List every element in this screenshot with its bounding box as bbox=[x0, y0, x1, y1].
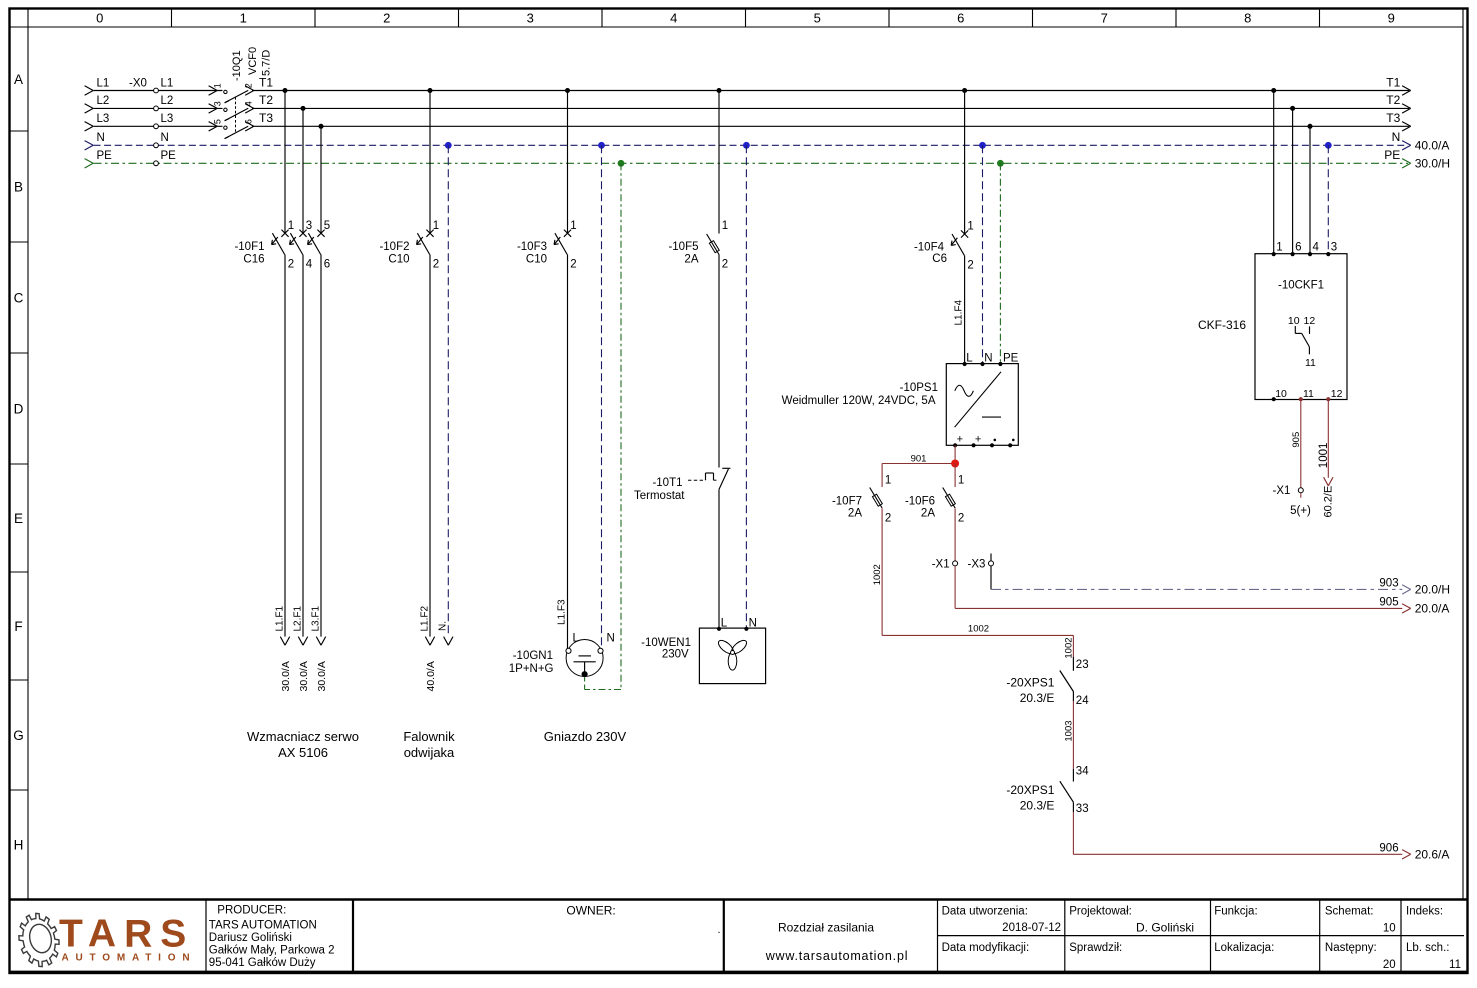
svg-text:0: 0 bbox=[96, 11, 103, 26]
input arrow L3 bbox=[85, 122, 94, 131]
text PRODUCER bbox=[217, 905, 286, 917]
svg-text:905: 905 bbox=[1379, 596, 1398, 608]
input arrow L1 bbox=[85, 86, 94, 95]
svg-text:4: 4 bbox=[1313, 241, 1320, 253]
node T1-F4 bbox=[962, 88, 967, 93]
fan -10WEN1 230V bbox=[641, 617, 765, 683]
svg-text:1: 1 bbox=[433, 220, 439, 232]
svg-text:4: 4 bbox=[670, 11, 677, 26]
label 905 bbox=[1379, 596, 1398, 608]
wire L1.F4 bbox=[964, 255, 966, 363]
svg-text:Lokalizacja:: Lokalizacja: bbox=[1214, 942, 1274, 954]
svg-text:T2: T2 bbox=[259, 93, 273, 107]
wire 906 down bbox=[1072, 812, 1074, 854]
svg-text:10: 10 bbox=[1275, 388, 1287, 400]
svg-text:C6: C6 bbox=[932, 253, 947, 265]
svg-text:C: C bbox=[14, 290, 24, 305]
svg-text:4: 4 bbox=[306, 259, 313, 271]
svg-text:T1: T1 bbox=[1386, 75, 1400, 89]
svg-text:-20XPS1: -20XPS1 bbox=[1006, 783, 1054, 797]
svg-text:1003: 1003 bbox=[1064, 720, 1075, 741]
svg-text:230V: 230V bbox=[662, 649, 689, 661]
label 1003 vert bbox=[1064, 720, 1075, 741]
svg-text:-10GN1: -10GN1 bbox=[513, 650, 553, 662]
svg-text:5.7/D: 5.7/D bbox=[261, 50, 273, 76]
svg-text:T3: T3 bbox=[259, 111, 273, 125]
wire PSU+ down bbox=[954, 445, 956, 463]
svg-text:11: 11 bbox=[1449, 959, 1461, 971]
node T3-F1 bbox=[319, 124, 324, 129]
svg-text:1002: 1002 bbox=[872, 564, 883, 585]
row ruler A-H bbox=[10, 72, 29, 853]
xref 20.6/A bbox=[1415, 848, 1450, 862]
label 1002 horiz bbox=[968, 624, 989, 635]
main switch -10Q1 VCF0 5.7/D bbox=[209, 47, 273, 139]
svg-text:-10WEN1: -10WEN1 bbox=[641, 637, 691, 649]
text Gniazdo 230V bbox=[544, 729, 627, 744]
text Wzmacniacz serwo bbox=[247, 729, 359, 744]
svg-text:C16: C16 bbox=[243, 254, 264, 266]
svg-text:Schemat:: Schemat: bbox=[1325, 906, 1374, 918]
wire 901 to F6 bbox=[954, 464, 956, 488]
label 1002 vert 2 bbox=[1064, 637, 1075, 658]
node PE-PS1 bbox=[997, 160, 1004, 167]
text 20 bbox=[1383, 959, 1396, 971]
svg-text:L: L bbox=[966, 352, 973, 364]
svg-text:1: 1 bbox=[288, 220, 294, 232]
svg-text:7: 7 bbox=[1101, 11, 1108, 26]
wire T1 bus bbox=[252, 90, 1409, 92]
wire 1002 horizontal bbox=[882, 634, 1073, 636]
text OWNER bbox=[566, 904, 615, 918]
svg-text:20.0/H: 20.0/H bbox=[1415, 583, 1450, 597]
wire N bus bbox=[94, 144, 1409, 146]
xref 40.0/A bbox=[1415, 139, 1450, 153]
svg-text:F: F bbox=[14, 619, 22, 634]
label N right bbox=[1392, 130, 1401, 144]
svg-text:TARS: TARS bbox=[59, 913, 194, 956]
svg-text:E: E bbox=[14, 511, 23, 526]
svg-text:2: 2 bbox=[244, 83, 254, 88]
svg-text:10: 10 bbox=[1383, 923, 1396, 935]
svg-text:906: 906 bbox=[1379, 842, 1398, 854]
svg-text:L1: L1 bbox=[97, 77, 110, 89]
svg-text:1: 1 bbox=[958, 475, 964, 487]
label T2 bbox=[259, 93, 273, 107]
wire X1 down bbox=[954, 566, 956, 609]
wire L3 input bbox=[94, 125, 223, 127]
label 906 bbox=[1379, 842, 1398, 854]
svg-text:H: H bbox=[14, 837, 24, 852]
fuse -10F6 2A bbox=[905, 475, 964, 525]
svg-text:Funkcja:: Funkcja: bbox=[1214, 906, 1257, 918]
wire L3.F1 bbox=[320, 255, 322, 637]
svg-text:L3: L3 bbox=[97, 113, 110, 125]
svg-text:odwijaka: odwijaka bbox=[404, 745, 455, 760]
svg-text:PRODUCER:: PRODUCER: bbox=[217, 905, 286, 917]
label PE after X0 bbox=[161, 150, 177, 162]
svg-text:2: 2 bbox=[433, 259, 439, 271]
svg-text:N: N bbox=[607, 633, 615, 645]
label L2.F1 bbox=[293, 605, 304, 631]
text Sprawdzil bbox=[1069, 942, 1122, 954]
svg-text:40.0/A: 40.0/A bbox=[425, 661, 437, 691]
svg-text:Sprawdził:: Sprawdził: bbox=[1069, 942, 1122, 954]
svg-text:www.tarsautomation.pl: www.tarsautomation.pl bbox=[765, 949, 909, 963]
text Lb sch bbox=[1406, 942, 1449, 954]
wire T1 to F3 bbox=[567, 91, 569, 234]
svg-text:Termostat: Termostat bbox=[634, 490, 685, 502]
arrow 903 bbox=[1402, 585, 1411, 594]
svg-text:12: 12 bbox=[1304, 315, 1316, 327]
svg-text:L3: L3 bbox=[161, 113, 174, 125]
svg-text:11: 11 bbox=[1303, 388, 1314, 400]
wire N to falownik bbox=[447, 145, 449, 636]
text www.tarsautomation.pl bbox=[765, 949, 909, 963]
svg-text:1: 1 bbox=[722, 220, 728, 232]
xref 30.0/H bbox=[1415, 157, 1450, 171]
wire L1.F2 bbox=[429, 255, 431, 637]
label L1.F3 bbox=[557, 599, 568, 625]
input arrow L2 bbox=[85, 104, 94, 113]
terminal -X0 bbox=[129, 77, 158, 165]
svg-text:2: 2 bbox=[288, 259, 294, 271]
label PE left bbox=[97, 150, 113, 162]
svg-text:3: 3 bbox=[1331, 241, 1337, 253]
svg-text:Falownik: Falownik bbox=[403, 729, 455, 744]
label L2 left bbox=[97, 95, 110, 107]
svg-text:20.3/E: 20.3/E bbox=[1020, 799, 1055, 813]
arrow 905 bbox=[1402, 604, 1411, 613]
svg-text:8: 8 bbox=[1244, 11, 1251, 26]
wire PE to PSU bbox=[999, 163, 1001, 363]
circuit breaker -10F1 C16 bbox=[234, 220, 330, 271]
xref 40.0/A falownik bbox=[425, 661, 437, 691]
svg-text:2018-07-12: 2018-07-12 bbox=[1002, 922, 1061, 934]
svg-text:-20XPS1: -20XPS1 bbox=[1006, 676, 1054, 690]
arrow T3 right bbox=[1402, 122, 1411, 131]
arrow L1.F1 bbox=[280, 637, 289, 646]
label 903 bbox=[1379, 577, 1398, 589]
svg-text:1002: 1002 bbox=[1064, 637, 1075, 658]
wire L2.F1 bbox=[302, 255, 304, 637]
label L1.F1 bbox=[275, 605, 286, 631]
svg-text:30.0/A: 30.0/A bbox=[316, 661, 328, 691]
text Data modyfikacji bbox=[942, 942, 1030, 954]
svg-text:33: 33 bbox=[1076, 803, 1089, 815]
text Nastepny bbox=[1325, 942, 1377, 954]
arrow L1.F2 bbox=[425, 637, 434, 646]
svg-text:L2.F1: L2.F1 bbox=[293, 605, 304, 631]
svg-text:2: 2 bbox=[958, 513, 964, 525]
svg-text:-10F6: -10F6 bbox=[905, 496, 935, 508]
relay block -10CKF1 bbox=[1255, 241, 1347, 401]
svg-text:6: 6 bbox=[1295, 241, 1301, 253]
svg-text:Następny:: Następny: bbox=[1325, 942, 1377, 954]
svg-text:11: 11 bbox=[1305, 357, 1316, 369]
svg-text:901: 901 bbox=[911, 453, 927, 464]
svg-text:OWNER:: OWNER: bbox=[566, 904, 615, 918]
text Projektowal bbox=[1069, 906, 1132, 918]
svg-text:Wzmacniacz serwo: Wzmacniacz serwo bbox=[247, 729, 359, 744]
svg-text:Data modyfikacji:: Data modyfikacji: bbox=[942, 942, 1030, 954]
circuit breaker -10F3 C10 bbox=[517, 220, 577, 271]
svg-text:5: 5 bbox=[213, 119, 223, 124]
text 11 bbox=[1449, 959, 1461, 971]
svg-text:Gniazdo 230V: Gniazdo 230V bbox=[544, 729, 627, 744]
text Falownik bbox=[403, 729, 455, 744]
svg-text:95-041 Gałków Duży: 95-041 Gałków Duży bbox=[209, 957, 316, 969]
svg-text:-10T1: -10T1 bbox=[652, 477, 682, 489]
svg-text:20.6/A: 20.6/A bbox=[1415, 848, 1450, 862]
svg-text:2: 2 bbox=[383, 11, 390, 26]
svg-text:1: 1 bbox=[240, 11, 247, 26]
wire T1 to F1 bbox=[284, 91, 286, 234]
svg-text:20.0/A: 20.0/A bbox=[1415, 602, 1450, 616]
svg-text:L1.F1: L1.F1 bbox=[275, 605, 286, 631]
svg-text:903: 903 bbox=[1379, 577, 1398, 589]
wire 903 bbox=[991, 588, 1402, 590]
svg-text:Rozdział zasilania: Rozdział zasilania bbox=[778, 921, 874, 935]
node T2-F1 bbox=[301, 106, 306, 111]
node N-WEN1 bbox=[743, 142, 750, 149]
wire N to fan bbox=[745, 145, 747, 628]
svg-text:T2: T2 bbox=[1386, 93, 1400, 107]
arrow PE right bbox=[1402, 159, 1411, 168]
svg-text:40.0/A: 40.0/A bbox=[1415, 139, 1450, 153]
wire T3 bus bbox=[252, 125, 1409, 127]
svg-text:G: G bbox=[13, 728, 24, 743]
svg-text:D. Goliński: D. Goliński bbox=[1136, 921, 1194, 935]
wire L1.F1 bbox=[284, 255, 286, 637]
svg-text:C10: C10 bbox=[388, 254, 409, 266]
svg-text:A: A bbox=[14, 72, 23, 87]
TARS logo text bbox=[59, 913, 194, 956]
svg-text:PE: PE bbox=[1003, 352, 1019, 364]
label L1.F2 bbox=[420, 605, 431, 631]
wire T3 to F1 bbox=[320, 126, 322, 233]
text Data utworzenia bbox=[942, 906, 1028, 918]
svg-text:6: 6 bbox=[244, 119, 254, 124]
label 1002 vert bbox=[872, 564, 883, 585]
wire T1 to CKF bbox=[1273, 91, 1275, 254]
text D. Golinski bbox=[1136, 921, 1194, 935]
label L1.F4 bbox=[954, 299, 965, 325]
svg-text:PE: PE bbox=[161, 150, 177, 162]
power supply -10PS1 Weidmuller 120W 24VDC 5A bbox=[782, 352, 1019, 447]
svg-text:2: 2 bbox=[570, 259, 576, 271]
svg-text:C10: C10 bbox=[526, 254, 547, 266]
wire 1001 bbox=[1327, 400, 1329, 478]
svg-text:AUTOMATION: AUTOMATION bbox=[62, 953, 197, 964]
node T1-CKF bbox=[1271, 88, 1276, 93]
xref 30.0/A x3 bbox=[280, 661, 328, 691]
text Dariusz Golinski bbox=[209, 932, 292, 944]
svg-text:-10F3: -10F3 bbox=[517, 241, 547, 253]
wire T2 to F1 bbox=[302, 108, 304, 233]
svg-text:L1.F2: L1.F2 bbox=[420, 605, 431, 631]
arrow L2.F1 bbox=[298, 637, 307, 646]
node N-CKF bbox=[1325, 142, 1332, 149]
arrow 906 bbox=[1402, 850, 1411, 859]
text Lokalizacja bbox=[1214, 942, 1274, 954]
svg-text:T3: T3 bbox=[1386, 111, 1400, 125]
label T1 right bbox=[1386, 75, 1400, 89]
svg-text:-X3: -X3 bbox=[967, 558, 985, 570]
node T2-CKF bbox=[1290, 106, 1295, 111]
text TARS AUTOMATION bbox=[209, 919, 317, 931]
wire N to CKF bbox=[1327, 145, 1329, 253]
svg-text:L2: L2 bbox=[161, 95, 174, 107]
svg-text:B: B bbox=[14, 179, 23, 194]
text Funkcja bbox=[1214, 906, 1257, 918]
node N-GN1 bbox=[598, 142, 605, 149]
svg-text:2A: 2A bbox=[921, 508, 935, 520]
text Rozdzial zasilania bbox=[778, 921, 874, 935]
wire 905 CKF bbox=[1300, 400, 1302, 488]
wire 1002 down bbox=[881, 508, 883, 635]
label L3 left bbox=[97, 113, 110, 125]
svg-text:N.: N. bbox=[437, 621, 448, 631]
svg-text:CKF-316: CKF-316 bbox=[1198, 318, 1246, 332]
terminal -X3 bbox=[967, 554, 993, 571]
input arrow N bbox=[85, 141, 94, 150]
arrow N right bbox=[1402, 141, 1411, 150]
label L2 after X0 bbox=[161, 95, 174, 107]
label L3.F1 bbox=[311, 605, 322, 631]
svg-text:2A: 2A bbox=[848, 508, 862, 520]
svg-text:3: 3 bbox=[306, 220, 312, 232]
arrow 1001 bbox=[1324, 477, 1333, 486]
svg-text:N: N bbox=[749, 617, 757, 629]
wire X3 to 903 bbox=[990, 566, 992, 590]
svg-text:30.0/H: 30.0/H bbox=[1415, 157, 1450, 171]
text AX 5106 bbox=[278, 745, 328, 760]
svg-text:Gałków Mały, Parkowa 2: Gałków Mały, Parkowa 2 bbox=[209, 944, 335, 956]
xref 20.0/H bbox=[1415, 583, 1450, 597]
wire F5 to T1 contact bbox=[718, 255, 720, 468]
svg-text:1P+N+G: 1P+N+G bbox=[509, 663, 554, 675]
contact -20XPS1 23-24 bbox=[1006, 657, 1089, 707]
wire N to PSU bbox=[982, 145, 984, 363]
thermostat contact -10T1 bbox=[634, 468, 730, 502]
input arrow PE bbox=[85, 159, 94, 168]
label L1 after X0 bbox=[161, 77, 174, 89]
node N-F2 bbox=[445, 142, 452, 149]
svg-text:+: + bbox=[957, 433, 963, 445]
wire L2 input bbox=[94, 107, 223, 109]
svg-text:VCF0: VCF0 bbox=[247, 47, 259, 75]
svg-text:5(+): 5(+) bbox=[1290, 505, 1311, 517]
svg-text:-10F5: -10F5 bbox=[668, 241, 698, 253]
wire T1 to F5 bbox=[718, 91, 720, 234]
wire T3 to CKF bbox=[1309, 126, 1311, 253]
wire PE bus bbox=[94, 162, 1409, 164]
label 901 bbox=[911, 453, 927, 464]
svg-text:1001: 1001 bbox=[1318, 443, 1330, 469]
label T1 bbox=[259, 75, 273, 89]
svg-text:-X1: -X1 bbox=[1272, 485, 1290, 497]
node T1-F2 bbox=[428, 88, 433, 93]
svg-text:Indeks:: Indeks: bbox=[1406, 906, 1443, 918]
svg-text:1: 1 bbox=[967, 221, 973, 233]
socket -10GN1 1P+N+G bbox=[509, 633, 615, 678]
arrow T1 right bbox=[1402, 86, 1411, 95]
label CKF-316 bbox=[1198, 318, 1246, 332]
circuit breaker -10F2 C10 bbox=[379, 220, 439, 271]
wire 1002 to contact bbox=[1072, 635, 1074, 657]
label T3 right bbox=[1386, 111, 1400, 125]
text Indeks bbox=[1406, 906, 1443, 918]
contact -20XPS1 33-34 bbox=[1006, 766, 1089, 816]
xref 20.0/A bbox=[1415, 602, 1450, 616]
svg-text:24: 24 bbox=[1076, 695, 1089, 707]
svg-text:20.3/E: 20.3/E bbox=[1020, 691, 1055, 705]
terminal -X1 5(+) bbox=[1272, 485, 1311, 517]
svg-text:3: 3 bbox=[213, 101, 223, 106]
svg-text:N: N bbox=[1392, 130, 1401, 144]
svg-text:Projektował:: Projektował: bbox=[1069, 906, 1132, 918]
label N left bbox=[97, 132, 105, 144]
owner dot bbox=[718, 924, 721, 936]
terminal -X1 bbox=[932, 558, 958, 570]
svg-text:-10Q1: -10Q1 bbox=[231, 50, 243, 81]
svg-text:L: L bbox=[721, 617, 728, 629]
node 901 bbox=[951, 460, 959, 468]
svg-text:60.2/E: 60.2/E bbox=[1323, 486, 1335, 518]
wire F6 to X1 bbox=[954, 508, 956, 561]
svg-text:23: 23 bbox=[1076, 659, 1089, 671]
svg-text:TARS AUTOMATION: TARS AUTOMATION bbox=[209, 919, 317, 931]
svg-text:N: N bbox=[984, 352, 992, 364]
circuit breaker -10F4 C6 bbox=[914, 221, 974, 272]
svg-text:1: 1 bbox=[570, 220, 576, 232]
label T3 bbox=[259, 111, 273, 125]
AUTOMATION logo text bbox=[62, 953, 197, 964]
svg-text:-10F2: -10F2 bbox=[379, 241, 409, 253]
fuse -10F5 2A bbox=[668, 220, 728, 271]
wire 905 bbox=[955, 607, 1402, 609]
svg-text:L1.F3: L1.F3 bbox=[557, 599, 568, 625]
svg-text:-10F7: -10F7 bbox=[832, 496, 862, 508]
label L1 left bbox=[97, 77, 110, 89]
svg-text:2A: 2A bbox=[684, 254, 698, 266]
wire N to socket bbox=[601, 145, 603, 648]
svg-text:L1.F4: L1.F4 bbox=[954, 299, 965, 325]
svg-text:6: 6 bbox=[324, 259, 330, 271]
svg-text:2: 2 bbox=[885, 513, 891, 525]
arrow N falownik bbox=[444, 637, 453, 646]
svg-text:Weidmuller 120W, 24VDC, 5A: Weidmuller 120W, 24VDC, 5A bbox=[782, 395, 936, 407]
svg-text:10: 10 bbox=[1288, 315, 1300, 327]
svg-text:6: 6 bbox=[957, 11, 964, 26]
wire 1003 bbox=[1072, 701, 1074, 769]
wire T2 to CKF bbox=[1292, 108, 1294, 253]
svg-text:PE: PE bbox=[97, 150, 113, 162]
svg-text:5: 5 bbox=[814, 11, 821, 26]
node T1-F5 bbox=[717, 88, 722, 93]
node T1-F3 bbox=[565, 88, 570, 93]
text Galkow Maly Parkowa bbox=[209, 944, 335, 956]
wire L1 input bbox=[94, 90, 223, 92]
svg-text:1: 1 bbox=[1276, 241, 1282, 253]
svg-text:Data utworzenia:: Data utworzenia: bbox=[942, 906, 1028, 918]
title block grid bbox=[10, 900, 1467, 972]
svg-text:D: D bbox=[14, 401, 24, 416]
wire T1 contact to fan bbox=[718, 489, 720, 628]
svg-text:1002: 1002 bbox=[968, 624, 989, 635]
svg-text:1: 1 bbox=[213, 83, 223, 88]
